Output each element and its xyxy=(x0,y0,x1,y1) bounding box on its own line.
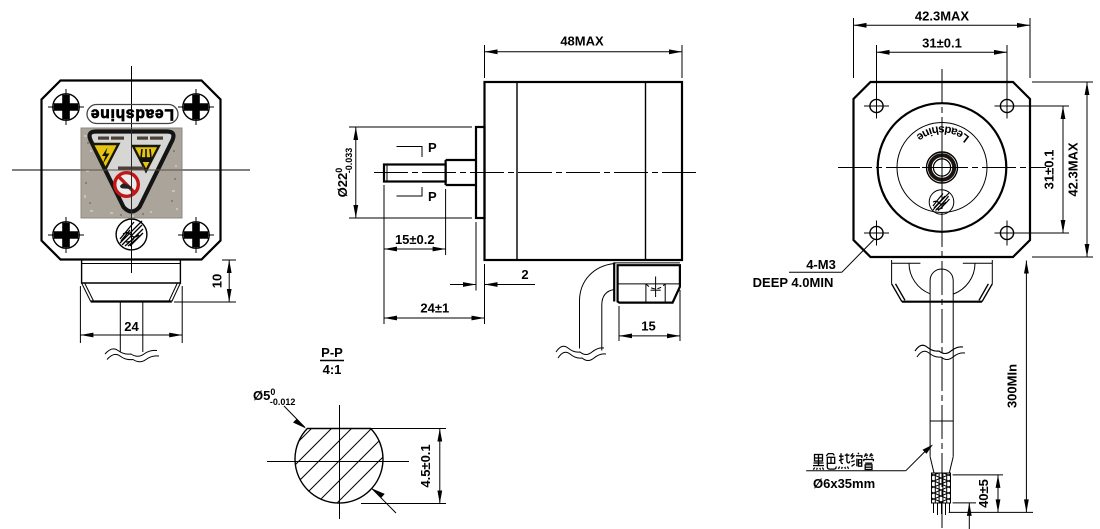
label 4-M3 DEEP 4.0MIN with leader xyxy=(753,240,874,290)
corner hole top-right xyxy=(995,94,1020,119)
end-bell line right xyxy=(645,82,647,260)
RIGHT VIEW GROUP xyxy=(753,9,1093,529)
centerline over label vertical xyxy=(131,128,133,218)
dim 24±1 xyxy=(384,189,485,324)
svg-text:42.3MAX: 42.3MAX xyxy=(915,9,970,24)
svg-text:P: P xyxy=(428,140,437,155)
screw top-left xyxy=(48,89,84,125)
svg-text:Ø6x35mm: Ø6x35mm xyxy=(813,476,875,491)
Leadshine curved upside-down xyxy=(909,126,976,144)
cable lines xyxy=(119,302,121,353)
dim 31±0.1 right xyxy=(1014,106,1070,233)
corner hole bottom-left xyxy=(864,221,889,246)
cable break wave mid xyxy=(556,346,604,354)
motor front face outline xyxy=(42,81,221,260)
braided wire end xyxy=(932,468,951,506)
motor rear face outline xyxy=(854,82,1031,257)
horizontal centerline xyxy=(12,169,250,171)
stamp circle rear xyxy=(929,190,954,215)
svg-text:10: 10 xyxy=(210,274,225,288)
dim 4.5±0.1 xyxy=(361,429,446,504)
horizontal centerline xyxy=(838,167,1046,169)
svg-text:24±1: 24±1 xyxy=(420,301,449,316)
cable break wave xyxy=(105,349,157,356)
SECTION P-P GROUP xyxy=(250,345,446,529)
svg-text:2: 2 xyxy=(521,267,528,282)
svg-text:31±0.1: 31±0.1 xyxy=(1042,150,1057,190)
dim diameter 22 xyxy=(334,127,472,218)
cable break wave right xyxy=(915,345,963,353)
connector rear view xyxy=(892,260,993,302)
screw bottom-right xyxy=(178,217,214,253)
svg-text:31±0.1: 31±0.1 xyxy=(922,36,962,51)
svg-text:P-P: P-P xyxy=(321,345,343,360)
dim 24 xyxy=(80,286,182,343)
connector housing front xyxy=(82,261,181,302)
dim 15 connector xyxy=(619,290,680,341)
dim 48MAX xyxy=(485,34,683,79)
inner face circle xyxy=(897,123,987,213)
section mark P top xyxy=(397,140,438,157)
section mark P bottom xyxy=(397,187,438,204)
middle small text xyxy=(118,167,144,171)
small chinese text row top xyxy=(98,137,163,140)
yellow triangle left (electric) xyxy=(93,144,119,169)
svg-text:Leadshine: Leadshine xyxy=(90,106,174,123)
svg-text:40±5: 40±5 xyxy=(976,479,991,508)
svg-text:P: P xyxy=(428,189,437,204)
MIDDLE VIEW GROUP xyxy=(334,34,700,361)
dim 42.3MAX right xyxy=(1032,82,1093,257)
speckle xyxy=(84,135,178,217)
section centerlines xyxy=(267,461,409,463)
cable top stadium xyxy=(930,269,953,302)
shaft step vertical xyxy=(445,160,447,185)
vertical centerline xyxy=(941,69,943,528)
label diameter 5 xyxy=(253,387,396,513)
dim 2 xyxy=(450,222,535,291)
dim 31±0.1 top xyxy=(877,36,1008,97)
hatching xyxy=(250,390,430,529)
svg-text:15: 15 xyxy=(641,319,655,334)
warning label photo xyxy=(81,128,182,218)
char guan xyxy=(864,453,874,469)
heat shrink tube xyxy=(930,421,953,473)
svg-text:DEEP 4.0MIN: DEEP 4.0MIN xyxy=(753,275,834,290)
stamp circle xyxy=(116,219,147,250)
vertical centerline xyxy=(131,66,133,273)
svg-text:4.5±0.1: 4.5±0.1 xyxy=(418,444,433,487)
dim 10 xyxy=(174,260,236,302)
char suo xyxy=(851,453,862,467)
inner dome arc xyxy=(909,263,975,294)
cable side view xyxy=(580,264,615,349)
prohibition circle xyxy=(115,173,139,197)
LEFT VIEW GROUP xyxy=(12,66,250,362)
warning sign rounded triangle xyxy=(90,132,174,212)
cable lines down xyxy=(929,302,931,421)
pilot boss xyxy=(476,127,485,218)
cut-off dim at braid bottom xyxy=(953,503,976,529)
centerline over label horizontal xyxy=(81,169,182,171)
shaft end double line xyxy=(386,165,388,182)
leader heat shrink xyxy=(806,470,906,472)
corner hole bottom-right xyxy=(995,221,1020,246)
stamp scribble xyxy=(120,221,143,246)
yellow triangle right (hot) xyxy=(133,146,159,171)
corner hole top-left xyxy=(864,94,889,119)
pilot circle xyxy=(878,103,1007,232)
screw bottom-left xyxy=(48,217,84,253)
svg-text:15±0.2: 15±0.2 xyxy=(395,232,435,247)
horizontal centerline xyxy=(374,172,700,174)
label heat shrink chinese xyxy=(813,453,873,470)
svg-text:42.3MAX: 42.3MAX xyxy=(1066,142,1081,197)
shaft rings xyxy=(927,152,958,183)
svg-text:4-M3: 4-M3 xyxy=(806,257,836,272)
char se xyxy=(826,453,836,469)
Leadshine logo outline capsule xyxy=(87,105,178,124)
screw top-right xyxy=(178,89,214,125)
dim 40±5 xyxy=(953,475,1003,513)
svg-text:48MAX: 48MAX xyxy=(560,34,604,49)
char hei xyxy=(813,455,824,470)
connector side view xyxy=(614,262,680,302)
wire ends xyxy=(934,503,950,515)
dim 15±0.2 xyxy=(384,185,446,255)
motor body side outline xyxy=(485,82,683,260)
char re xyxy=(838,453,850,469)
svg-text:4:1: 4:1 xyxy=(323,362,342,377)
shaft small diameter xyxy=(384,165,446,182)
svg-text:24: 24 xyxy=(124,319,139,334)
dim 300MIn xyxy=(949,261,1033,513)
svg-text:300MIn: 300MIn xyxy=(1005,364,1020,408)
shaft large step xyxy=(446,160,476,185)
end-bell line left xyxy=(516,82,518,260)
dim 42.3MAX top xyxy=(854,9,1031,79)
